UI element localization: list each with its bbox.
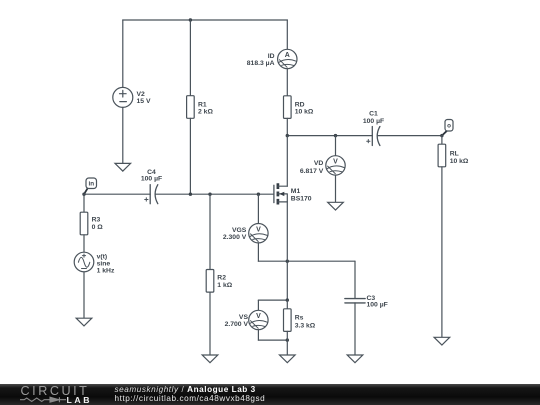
wire M1 drain lead up	[286, 136, 288, 187]
wire V2 bottom lead	[122, 107, 124, 163]
resistor RD	[284, 96, 292, 119]
label RL name and value 10 kOhm	[450, 150, 469, 165]
voltmeter VS	[249, 310, 268, 329]
junction Rs bottom	[286, 338, 289, 341]
resistor R3	[80, 212, 88, 235]
svg-text:V2: V2	[137, 91, 146, 98]
resistor R2	[206, 270, 214, 293]
svg-text:15 V: 15 V	[137, 98, 151, 105]
junction Rs top	[286, 298, 289, 301]
svg-text:3.3 kΩ: 3.3 kΩ	[295, 322, 316, 329]
svg-text:10 kΩ: 10 kΩ	[450, 158, 469, 165]
junction R1 bottom on gate net	[189, 193, 192, 196]
capacitor C1	[367, 127, 380, 146]
wire VS bottom stub	[258, 339, 287, 341]
svg-text:2.300 V: 2.300 V	[223, 234, 247, 241]
label V2 name and value 15 V	[137, 91, 151, 105]
svg-text:V: V	[333, 159, 338, 166]
wire VS top stub	[258, 299, 287, 301]
label VD name and value 6.817 V	[300, 160, 324, 175]
wire input net: C4 to gate	[156, 193, 274, 195]
label R1 name and value 2 kOhm	[198, 101, 213, 115]
wire VS bottom lead	[257, 330, 259, 340]
ground (C3)	[347, 355, 363, 363]
junction source column crossing	[286, 260, 289, 263]
svg-text:v(t): v(t)	[97, 253, 108, 260]
svg-text:VS: VS	[239, 314, 249, 321]
wire M1 source down	[286, 202, 288, 300]
label VS name and value 2.700 V	[225, 314, 249, 328]
ground (RL)	[434, 337, 450, 345]
svg-text:100 µF: 100 µF	[363, 118, 384, 125]
ground (V2)	[115, 163, 131, 171]
wire VGS bottom lead	[257, 243, 259, 261]
junction top rail / R1	[189, 18, 192, 21]
label R2 name and value 1 kOhm	[217, 274, 232, 289]
ammeter ID	[278, 49, 297, 68]
svg-text:in: in	[88, 181, 94, 188]
svg-text:Rs: Rs	[295, 314, 304, 321]
wire RL bottom lead	[441, 167, 443, 337]
svg-text:o: o	[447, 123, 451, 130]
svg-text:10 kΩ: 10 kΩ	[295, 108, 314, 115]
label M1 name and type BS170	[291, 188, 312, 203]
source v(t) sine 1 kHz	[74, 252, 94, 272]
wire C3 top lead	[354, 261, 356, 298]
wire VD top lead	[335, 136, 337, 156]
wire V2 top lead	[122, 20, 124, 87]
wire R3 top lead	[83, 194, 85, 212]
junction RD / drain / output	[286, 134, 289, 137]
svg-text:818.3 µA: 818.3 µA	[247, 60, 275, 67]
label v(t) sine 1 kHz	[97, 253, 115, 274]
wire VS top lead	[257, 300, 259, 310]
wire VD bottom lead	[335, 175, 337, 202]
wire Rs bottom lead	[286, 331, 288, 355]
ground (VD)	[328, 202, 344, 210]
junction R2 top on gate net	[208, 193, 211, 196]
wire RL top lead	[441, 136, 443, 145]
svg-text:1 kHz: 1 kHz	[97, 267, 115, 274]
svg-text:A: A	[285, 52, 290, 59]
svg-text:sine: sine	[97, 260, 111, 267]
wire output rail right segment	[378, 135, 442, 137]
voltage source V2	[113, 87, 133, 107]
label R3 name and value 0 Ohm	[92, 216, 104, 231]
wire ammeter bottom lead	[286, 69, 288, 96]
capacitor C4	[145, 185, 158, 204]
voltmeter VGS	[249, 224, 268, 243]
svg-text:V: V	[256, 313, 261, 320]
wire VGS top lead	[257, 194, 259, 223]
wire C3 bottom lead	[354, 303, 356, 355]
wire VGS to source node horizontal	[258, 260, 355, 262]
resistor RL	[438, 144, 446, 167]
svg-text:2.700 V: 2.700 V	[225, 321, 249, 328]
junction node o	[440, 134, 443, 137]
wire top rail	[123, 19, 287, 21]
junction VD tap on output rail	[334, 134, 337, 137]
junction VGS tap on gate net	[257, 193, 260, 196]
label C3 name and value 100 uF	[367, 295, 388, 309]
label C1 name and value 100 uF	[363, 110, 384, 124]
label RD name and value 10 kOhm	[295, 101, 314, 115]
label VGS name and value 2.300 V	[223, 227, 247, 241]
resistor R1	[187, 96, 195, 119]
ground (v(t))	[76, 318, 92, 326]
label Rs name and value 3.3 kOhm	[295, 314, 316, 329]
capacitor C3	[345, 299, 365, 303]
ground (Rs)	[280, 355, 296, 363]
svg-text:RD: RD	[295, 101, 305, 108]
svg-text:RL: RL	[450, 150, 459, 157]
svg-text:1 kΩ: 1 kΩ	[217, 282, 232, 289]
node in flag	[84, 178, 97, 194]
svg-text:BS170: BS170	[291, 195, 312, 202]
wire R2 top lead	[209, 194, 211, 269]
svg-text:V: V	[256, 226, 261, 233]
wire ammeter top lead	[286, 20, 288, 49]
wire output rail left segment	[287, 135, 372, 137]
svg-text:VGS: VGS	[232, 227, 247, 234]
svg-text:R2: R2	[217, 274, 226, 281]
wire R2 bottom lead	[209, 292, 211, 355]
svg-text:0 Ω: 0 Ω	[92, 224, 104, 231]
svg-text:ID: ID	[268, 53, 275, 60]
svg-text:100 µF: 100 µF	[141, 176, 162, 183]
wire R1 bottom lead	[189, 118, 191, 194]
wire R3 bottom lead	[83, 235, 85, 252]
svg-text:2 kΩ: 2 kΩ	[198, 108, 213, 115]
ground (R2)	[202, 355, 218, 363]
svg-text:6.817 V: 6.817 V	[300, 168, 324, 175]
svg-text:R1: R1	[198, 101, 207, 108]
label ID name and value 818.3 uA	[247, 53, 275, 67]
wire v(t) bottom lead	[83, 272, 85, 318]
voltmeter VD	[326, 156, 345, 175]
junction node in	[82, 193, 85, 196]
resistor Rs	[284, 309, 292, 332]
wire Rs top lead	[286, 300, 288, 309]
svg-text:C1: C1	[369, 110, 378, 117]
node o flag	[442, 120, 453, 136]
svg-text:100 µF: 100 µF	[367, 301, 388, 308]
svg-text:VD: VD	[314, 160, 324, 167]
svg-text:M1: M1	[291, 188, 301, 195]
transistor M1 (NMOS BS170)	[274, 183, 287, 204]
wire input net: node to C4	[84, 193, 150, 195]
wire RD bottom lead	[286, 118, 288, 135]
wire R1 top lead	[189, 20, 191, 96]
svg-text:R3: R3	[92, 216, 101, 223]
label C4 name and value 100 uF	[141, 169, 162, 183]
